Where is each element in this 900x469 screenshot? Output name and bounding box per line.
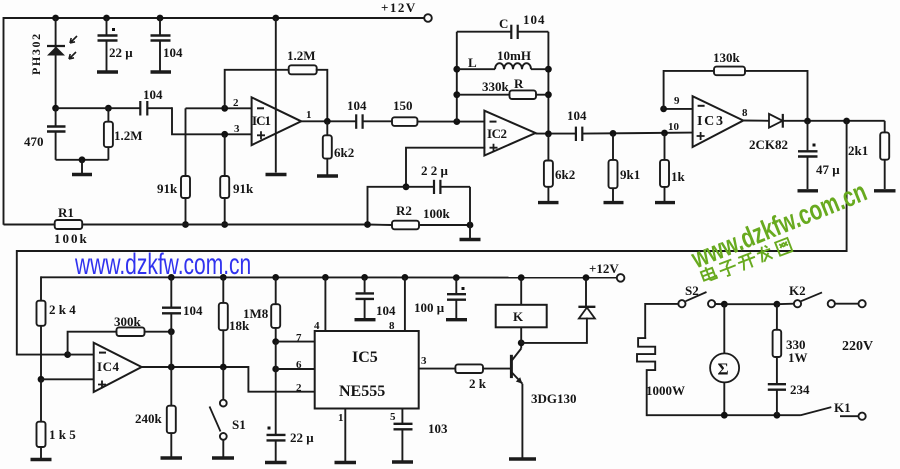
- capacitor 22u timing: [267, 427, 286, 462]
- ground below 1k: [655, 201, 675, 204]
- node motor top: [721, 301, 728, 308]
- node collector-relay: [518, 340, 525, 347]
- node 1k top: [661, 130, 668, 137]
- ground below 6k2 second: [538, 201, 559, 204]
- svg-text:240k: 240k: [135, 411, 163, 426]
- svg-text:R: R: [514, 76, 524, 91]
- svg-text:2: 2: [296, 382, 302, 394]
- node 47u top: [804, 118, 811, 125]
- capacitor 104 after IC2: [576, 127, 693, 141]
- svg-text:6: 6: [296, 359, 302, 371]
- op-amp IC2: [484, 111, 535, 156]
- node motor bottom: [721, 412, 728, 419]
- resistor 1k5: [37, 379, 46, 458]
- capacitor 470: [47, 108, 66, 160]
- op-amp IC4: [94, 343, 142, 392]
- ground below 9k1: [604, 201, 624, 204]
- svg-text:9: 9: [674, 95, 680, 107]
- node IC2 inv input: [453, 118, 460, 125]
- ground below 240k: [161, 456, 183, 459]
- ground below 47u: [798, 189, 819, 192]
- resistor 150: [392, 117, 484, 126]
- svg-text:47 μ: 47 μ: [816, 162, 840, 177]
- transistor 3DG130: [511, 343, 522, 458]
- node 2k4-1k5: [38, 376, 45, 383]
- relay K box: [496, 278, 547, 343]
- svg-text:100k: 100k: [423, 206, 451, 221]
- ground below IC1: [266, 173, 287, 176]
- svg-text:104: 104: [163, 45, 183, 60]
- node 300k right: [168, 328, 175, 335]
- switch K1: [801, 407, 866, 420]
- node pin2 junction: [221, 105, 228, 112]
- resistor R1 100k: [4, 220, 368, 229]
- svg-text:7: 7: [296, 332, 302, 344]
- svg-text:5: 5: [390, 411, 396, 423]
- resistor 300k: [68, 327, 172, 354]
- svg-text:10mH: 10mH: [497, 48, 531, 63]
- photodiode PH302: [47, 18, 77, 108]
- wire top row right section: [724, 303, 777, 305]
- wire corner to pin3 row: [172, 108, 252, 134]
- svg-text:330k: 330k: [482, 79, 510, 94]
- wire IC2 noninv to fb node: [406, 148, 484, 187]
- op-amp IC1: [252, 97, 302, 145]
- svg-text:22 μ: 22 μ: [109, 45, 133, 60]
- node rail-IC4col: [168, 274, 175, 281]
- node 2k1 branch: [843, 118, 850, 125]
- wire pin1: [344, 409, 346, 462]
- node rail-diode: [583, 274, 590, 281]
- node 91k-left bottom: [182, 221, 189, 228]
- capacitor 104 IC4 col: [162, 277, 181, 331]
- svg-text:3: 3: [421, 355, 427, 367]
- node 18k bottom: [220, 364, 227, 371]
- svg-text:IC2: IC2: [487, 126, 507, 141]
- switch S2: [678, 292, 724, 307]
- resistor 18k: [219, 277, 228, 367]
- ground below 6k2 first: [317, 174, 338, 177]
- wire pin8: [404, 277, 406, 331]
- capacitor 100u: [447, 278, 466, 318]
- svg-text:8: 8: [389, 320, 395, 332]
- inductor L 10mH: [457, 63, 549, 69]
- capacitor 104 top-left: [151, 18, 171, 71]
- switch K2: [777, 292, 866, 307]
- wire IC2 fb right vertical: [547, 32, 549, 135]
- svg-text:9k1: 9k1: [620, 167, 640, 182]
- diode flyback: [521, 278, 595, 343]
- node pin9: [660, 106, 667, 113]
- svg-text:100k: 100k: [54, 231, 89, 246]
- svg-text:1M8: 1M8: [243, 306, 269, 321]
- capacitor 22u top: [98, 18, 118, 71]
- node rail-pin4: [322, 274, 329, 281]
- node PH302-bottom: [52, 105, 59, 112]
- resistor 1.2M feedback: [225, 65, 328, 121]
- ground below 104 ne555: [355, 318, 376, 321]
- svg-text:1: 1: [306, 109, 312, 121]
- svg-text:4: 4: [314, 320, 320, 332]
- node R row right: [545, 91, 552, 98]
- svg-text:C: C: [499, 16, 508, 31]
- ground below 100u: [446, 318, 467, 321]
- ground below pin1: [335, 461, 357, 464]
- node pin7: [272, 338, 279, 345]
- svg-text:8: 8: [742, 107, 748, 119]
- wire pin3 row: [419, 368, 456, 370]
- svg-text:6k2: 6k2: [334, 145, 354, 160]
- svg-text:IC3: IC3: [697, 114, 723, 129]
- svg-text:IC5: IC5: [352, 349, 378, 366]
- capacitor C 104 fb: [457, 25, 549, 39]
- svg-text:1.2M: 1.2M: [114, 128, 143, 143]
- svg-text:2CK82: 2CK82: [749, 137, 788, 152]
- node 22u-R2 left: [403, 183, 410, 190]
- char dian: [700, 265, 717, 283]
- svg-text:PH302: PH302: [29, 32, 43, 75]
- svg-text:103: 103: [428, 421, 448, 436]
- resistor 6k2 second: [544, 134, 553, 201]
- svg-text:3: 3: [234, 123, 240, 135]
- wire feedback to bottom section: [17, 121, 847, 355]
- node rail-PH302: [52, 15, 59, 22]
- capacitor 104 after IC1: [356, 114, 392, 129]
- svg-text:220V: 220V: [842, 339, 873, 354]
- node rail-18k: [220, 274, 227, 281]
- ground below R2: [460, 238, 481, 241]
- wire pin6 row: [276, 368, 315, 370]
- wire 300k node to output node: [170, 332, 172, 367]
- wire bottom +12V rail: [41, 276, 617, 278]
- resistor R 330k fb: [457, 90, 549, 99]
- wire pin2 row: [186, 107, 252, 109]
- svg-text:1k: 1k: [671, 169, 686, 184]
- ground below 1k5: [31, 458, 52, 461]
- svg-text:K2: K2: [789, 283, 806, 298]
- svg-text:104: 104: [183, 303, 203, 318]
- wire pin4: [324, 277, 326, 331]
- node K2 branch: [774, 301, 781, 308]
- svg-text:+12V: +12V: [589, 261, 619, 276]
- svg-text:300k: 300k: [114, 314, 142, 329]
- svg-text:104: 104: [376, 303, 396, 318]
- capacitor 104 ne555: [356, 277, 375, 318]
- svg-text:+12V: +12V: [381, 0, 417, 15]
- node rail-pin8: [402, 274, 409, 281]
- svg-text:104: 104: [523, 12, 546, 27]
- resistor 9k1: [609, 133, 618, 201]
- node L row left: [453, 66, 460, 73]
- svg-text:2 2 μ: 2 2 μ: [421, 163, 449, 178]
- svg-text:104: 104: [567, 108, 587, 123]
- resistor R2 100k: [368, 221, 471, 230]
- resistor 91k right: [220, 134, 229, 224]
- svg-text:91k: 91k: [233, 181, 254, 196]
- resistor 2k4: [37, 277, 46, 379]
- watermark green www.dzkfw.com.cn: [687, 176, 871, 275]
- resistor 330 1W: [773, 304, 782, 383]
- capacitor 234: [768, 384, 786, 415]
- resistor 2k: [455, 364, 510, 373]
- wire IC2 fb left vertical: [456, 32, 458, 122]
- svg-text:3DG130: 3DG130: [531, 391, 577, 406]
- ground below S1: [212, 456, 234, 459]
- op-amp IC3: [693, 96, 744, 147]
- ground below 104: [151, 70, 172, 73]
- resistor 6k2 first: [323, 121, 332, 174]
- node 1.2M-top: [105, 105, 112, 112]
- svg-text:1: 1: [338, 412, 344, 424]
- capacitor 22u fb: [406, 180, 470, 194]
- ground below transistor: [509, 457, 536, 460]
- wire top +12V rail: [4, 18, 424, 224]
- resistor 1.2M vertical: [104, 108, 113, 160]
- ground below 22u timing: [265, 461, 287, 464]
- capacitor 103: [394, 424, 413, 461]
- resistor 130k feedback: [664, 67, 808, 122]
- node R2 right: [467, 222, 474, 229]
- resistor 1k: [660, 133, 669, 201]
- svg-text:150: 150: [393, 98, 413, 113]
- node rail-relay: [518, 274, 525, 281]
- resistor 2k1: [880, 121, 889, 189]
- resistor 240k: [167, 367, 176, 457]
- svg-text:22 μ: 22 μ: [290, 430, 314, 445]
- wire 22u right down: [469, 187, 471, 238]
- svg-text:1W: 1W: [788, 350, 808, 365]
- char fa: [755, 244, 773, 263]
- node 91k-right bottom: [221, 221, 228, 228]
- node pin6: [272, 366, 279, 373]
- node R row left: [453, 91, 460, 98]
- svg-text:K: K: [513, 309, 524, 324]
- node rail-104b: [361, 274, 368, 281]
- wire 470/1.2M bottom row: [56, 159, 109, 161]
- ground below 2k1: [874, 189, 896, 192]
- node 234 bottom: [774, 412, 781, 419]
- node rail-100u: [453, 274, 460, 281]
- ground below 22u: [97, 70, 118, 73]
- svg-text:L: L: [468, 55, 477, 70]
- svg-text:130k: 130k: [713, 50, 741, 65]
- svg-text:1.2M: 1.2M: [287, 48, 316, 63]
- node rail-1M8: [272, 274, 279, 281]
- heater 1000W: [637, 338, 655, 415]
- capacitor 47u: [798, 121, 818, 189]
- node IC4 inv: [64, 351, 71, 358]
- svg-text:2 k 4: 2 k 4: [49, 302, 76, 317]
- diode 2CK82: [769, 114, 885, 128]
- svg-text:R1: R1: [58, 205, 74, 220]
- wire pin5: [401, 409, 403, 424]
- svg-text:6k2: 6k2: [555, 167, 575, 182]
- wire IC1 power vertical: [275, 18, 277, 173]
- node rail-C22u: [103, 15, 110, 22]
- capacitor 104 coupling IC1: [140, 101, 172, 116]
- wire IC4 inv row: [68, 354, 94, 356]
- svg-text:Σ: Σ: [718, 360, 729, 379]
- svg-text:K1: K1: [834, 400, 851, 415]
- node IC4 out col: [168, 364, 175, 371]
- resistor 1M8: [271, 277, 280, 341]
- char wang: [775, 238, 792, 256]
- terminal +12V top: [424, 14, 432, 22]
- node L row right: [545, 66, 552, 73]
- wire IC3 output row: [743, 120, 769, 122]
- svg-text:100 μ: 100 μ: [414, 300, 445, 315]
- svg-text:R2: R2: [396, 203, 412, 218]
- svg-text:104: 104: [143, 87, 163, 102]
- svg-text:NE555: NE555: [339, 383, 385, 400]
- svg-text:2k1: 2k1: [848, 143, 868, 158]
- ground below 103: [392, 460, 413, 463]
- char zi: [717, 259, 738, 278]
- svg-text:2: 2: [233, 97, 239, 109]
- wire bottom row right section: [647, 414, 801, 416]
- terminal +12V bottom: [617, 274, 625, 282]
- wire S2 to heater: [645, 304, 678, 338]
- svg-text:91k: 91k: [157, 181, 178, 196]
- wire 22u node down to R2 row: [368, 187, 407, 225]
- svg-text:IC4: IC4: [97, 359, 120, 374]
- node R2 left corner: [364, 221, 371, 228]
- wire IC4 noninv row: [41, 378, 94, 380]
- svg-text:104: 104: [347, 98, 367, 113]
- svg-text:234: 234: [790, 382, 810, 397]
- svg-text:S2: S2: [685, 283, 699, 298]
- wire row PH302 to coupling cap: [56, 107, 140, 109]
- node bias-gnd: [79, 156, 86, 163]
- watermark blue www.dzkfw.com.cn: [75, 248, 251, 282]
- node 9k1 top: [610, 130, 617, 137]
- wire IC1 output: [301, 120, 356, 122]
- svg-text:IC1: IC1: [252, 113, 271, 128]
- svg-text:1 k 5: 1 k 5: [49, 427, 76, 442]
- svg-text:2 k: 2 k: [469, 376, 487, 391]
- node rail-C104: [157, 15, 164, 22]
- node IC2 output: [545, 130, 552, 137]
- switch S1: [210, 367, 227, 457]
- node IC1 output: [324, 118, 331, 125]
- wire pin7 row: [276, 341, 315, 343]
- node pin3 junction: [221, 131, 228, 138]
- svg-text:470: 470: [24, 134, 44, 149]
- svg-text:1000W: 1000W: [646, 383, 685, 398]
- wire IC3 pin9 row: [664, 108, 693, 110]
- wire IC4 output row: [142, 367, 315, 392]
- IC5 NE555 box: [315, 331, 419, 409]
- char kai: [736, 252, 758, 272]
- ground below 470/1.2M: [72, 160, 92, 175]
- wire 1M8 to 22u: [275, 342, 277, 434]
- wire IC2 output row: [536, 133, 576, 135]
- motor sigma: [710, 304, 739, 415]
- svg-text:S1: S1: [232, 417, 246, 432]
- svg-text:10: 10: [668, 121, 680, 133]
- resistor 91k left: [181, 108, 190, 224]
- node rail-IC1: [272, 15, 279, 22]
